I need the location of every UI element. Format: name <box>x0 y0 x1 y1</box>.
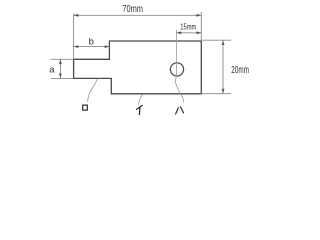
dimension b line <box>74 46 110 48</box>
hole centre line (for 15mm) <box>176 30 178 77</box>
svg-text:20mm: 20mm <box>231 65 249 76</box>
svg-text:15mm: 15mm <box>180 21 196 31</box>
svg-text:a: a <box>49 65 55 76</box>
label I (katakana) <box>136 105 142 115</box>
part outline (stepped plate) <box>74 41 202 94</box>
extension line 20mm top <box>201 39 231 41</box>
dimension 20mm line <box>222 40 224 93</box>
extension line a bottom <box>51 77 74 79</box>
svg-text:70mm: 70mm <box>122 4 143 15</box>
extension line left (for 70mm and b) <box>73 14 75 60</box>
dimension 15mm line <box>177 32 202 34</box>
leader to label HA <box>176 77 184 103</box>
label RO (katakana) <box>83 105 88 110</box>
dimension a line <box>59 59 61 78</box>
dimension 70mm line <box>74 14 202 16</box>
extension line right (for 70mm and 15mm) <box>200 12 202 41</box>
leader to label RO <box>88 78 98 102</box>
hole <box>170 63 183 76</box>
label HA (katakana) <box>175 106 183 114</box>
leader to label I <box>138 94 143 105</box>
extension line a top <box>51 58 74 60</box>
svg-text:b: b <box>89 37 94 48</box>
extension line 20mm bottom <box>201 93 231 95</box>
